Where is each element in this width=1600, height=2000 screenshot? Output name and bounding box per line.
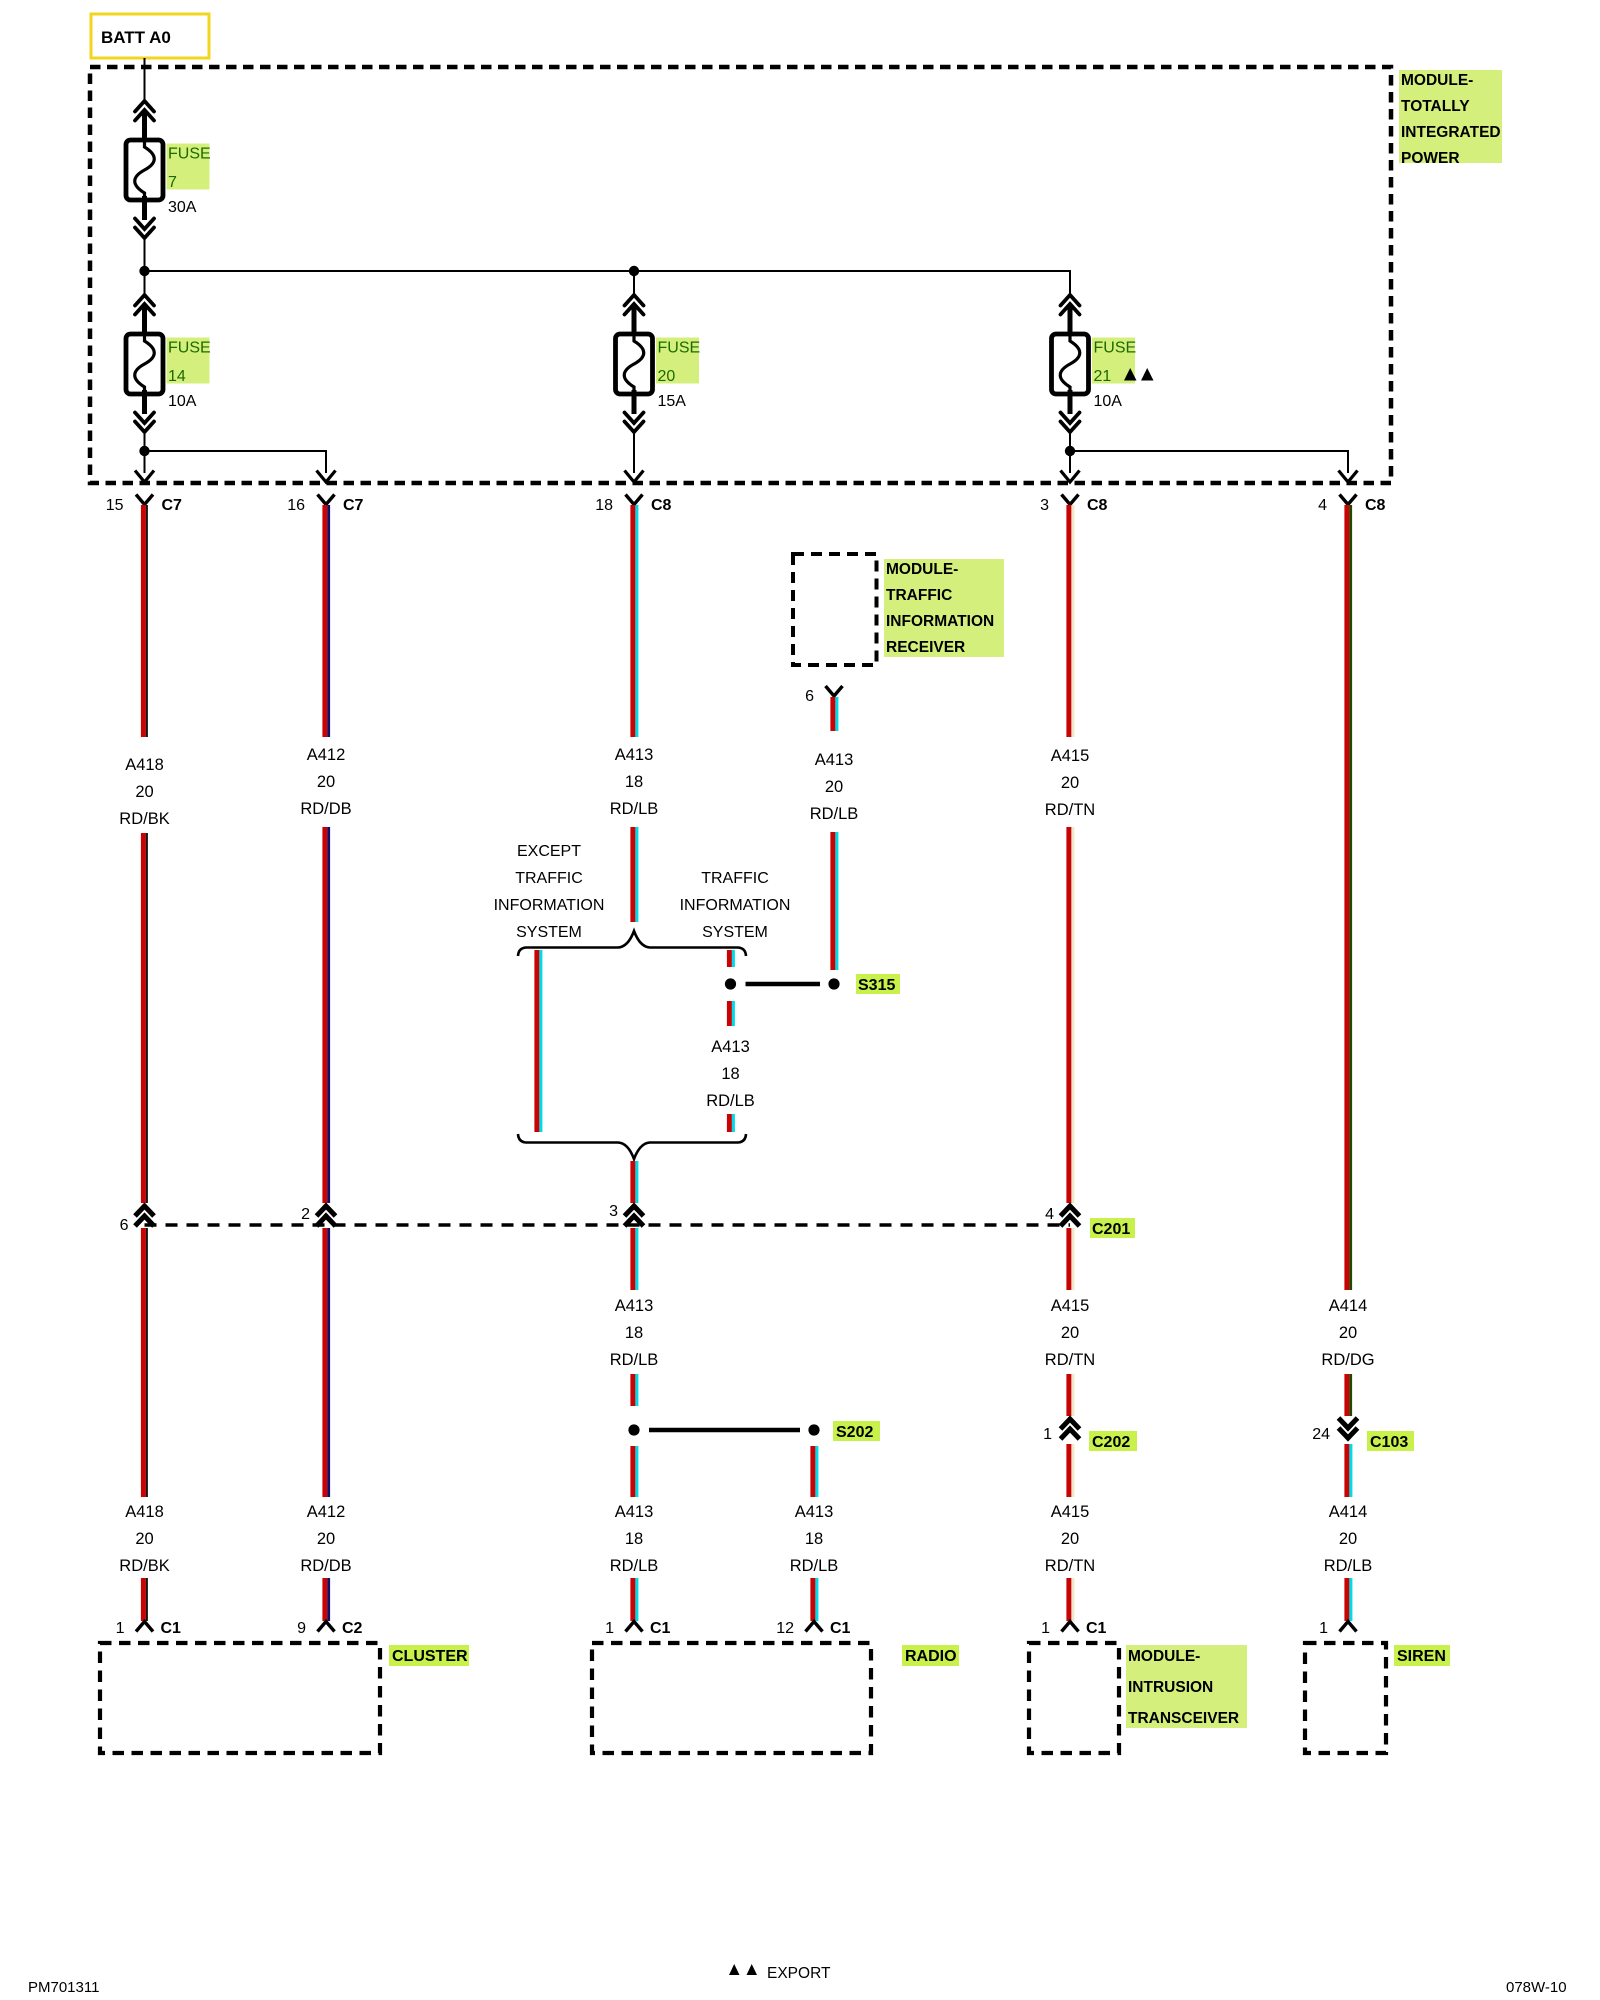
svg-text:FUSE: FUSE: [168, 146, 211, 163]
fuse F 21 - wire entry chevrons: [1061, 295, 1080, 315]
module RADIO dashed box: [592, 1643, 871, 1753]
wire A418 20 RD/BK segment: [141, 833, 148, 1203]
bottom connector pin 9 C2 terminal: [297, 1620, 362, 1637]
splice S202 name label: [833, 1421, 880, 1441]
svg-text:12: 12: [776, 1620, 794, 1637]
wire: fuse 21 to C8 pin 3: [1069, 451, 1071, 473]
fuse F 14 name label: [167, 338, 211, 386]
module INTRUSION TRANSCEIVER name label: [1126, 1645, 1247, 1728]
svg-text:20: 20: [1339, 1530, 1357, 1548]
svg-text:6: 6: [120, 1217, 129, 1234]
wire A413 label: [610, 746, 659, 818]
svg-text:RD/LB: RD/LB: [790, 1557, 839, 1575]
svg-text:TRAFFIC: TRAFFIC: [886, 587, 952, 604]
svg-text:A412: A412: [307, 1503, 346, 1521]
svg-text:S202: S202: [836, 1424, 873, 1441]
bottom connector pin 1 C1 terminal: [1041, 1620, 1106, 1637]
wire A413 RD/LB traffic branch lower: [727, 1114, 735, 1132]
svg-text:FUSE: FUSE: [1094, 340, 1137, 357]
wire A414 lower label: [1324, 1503, 1373, 1575]
svg-text:RD/TN: RD/TN: [1045, 801, 1095, 819]
svg-text:078W-10: 078W-10: [1506, 1979, 1567, 1996]
connector C103 name label: [1367, 1431, 1414, 1451]
svg-text:RD/LB: RD/LB: [1324, 1557, 1373, 1575]
wire A413 RD/LB traffic branch upper: [727, 950, 735, 967]
svg-text:20: 20: [1061, 1530, 1079, 1548]
svg-text:21: 21: [1094, 368, 1112, 385]
svg-text:RD/LB: RD/LB: [610, 1557, 659, 1575]
wire: fuse 7 output to bus node: [144, 238, 146, 271]
svg-text:20: 20: [317, 773, 335, 791]
svg-text:A413: A413: [815, 751, 854, 769]
svg-text:C2: C2: [342, 1620, 363, 1637]
wire A415 label: [1045, 747, 1095, 819]
wire A418 20 RD/BK segment (C7-15 down): [141, 505, 148, 737]
battery feed label box BATT A0: [91, 14, 209, 58]
wire: bus drop to fuse 20: [633, 271, 635, 296]
svg-text:C8: C8: [1087, 497, 1108, 514]
arrow into C7 pin 16: [317, 471, 336, 483]
svg-text:RD/LB: RD/LB: [610, 800, 659, 818]
connector C201 pin 6 terminal: [120, 1206, 154, 1234]
svg-text:20: 20: [317, 1530, 335, 1548]
svg-text:18: 18: [595, 497, 613, 514]
wire A415 20 RD/TN segment to intrusion module C1-1: [1066, 1578, 1074, 1621]
svg-text:20: 20: [1339, 1324, 1357, 1342]
arrow into C8 pin 18: [625, 471, 644, 483]
svg-text:A418: A418: [125, 1503, 164, 1521]
fuse F 14 - lead: [142, 307, 147, 338]
svg-text:RECEIVER: RECEIVER: [886, 639, 965, 656]
svg-text:RD/DB: RD/DB: [300, 800, 351, 818]
svg-text:RD/TN: RD/TN: [1045, 1351, 1095, 1369]
svg-text:1: 1: [605, 1620, 614, 1637]
svg-text:3: 3: [609, 1203, 618, 1220]
svg-text:INTEGRATED: INTEGRATED: [1401, 124, 1501, 141]
svg-text:15A: 15A: [658, 393, 687, 410]
svg-text:1: 1: [116, 1620, 125, 1637]
wire A414 20 RD/LB segment to siren: [1344, 1578, 1352, 1621]
connector C201 pin 3 terminal: [609, 1203, 643, 1226]
svg-text:INTRUSION: INTRUSION: [1128, 1679, 1213, 1696]
fuse F 20 - lead: [632, 390, 637, 414]
wire A412 label: [300, 746, 351, 818]
connector pin 6 terminal of traffic information receiver: [805, 686, 842, 705]
svg-text:24: 24: [1312, 1426, 1330, 1443]
wire A415 20 RD/TN segment (C8-3 down): [1066, 505, 1074, 737]
svg-text:C8: C8: [1365, 497, 1386, 514]
connector C8 pin 18 terminal: [595, 495, 671, 515]
svg-text:C1: C1: [161, 1620, 182, 1637]
node: fuse7 output junction: [139, 266, 149, 276]
fuse F 7 name label: [167, 144, 211, 192]
svg-text:POWER: POWER: [1401, 150, 1460, 167]
svg-text:10A: 10A: [1094, 393, 1123, 410]
wire A413 (pin12) label: [790, 1503, 839, 1575]
connector C7 pin 15 terminal: [106, 495, 182, 515]
fuse F 21 - body: [1052, 334, 1089, 394]
svg-text:BATT A0: BATT A0: [101, 28, 171, 47]
fuse F 7 - lead: [142, 196, 147, 220]
svg-text:C103: C103: [1370, 1434, 1408, 1451]
svg-text:S315: S315: [858, 977, 895, 994]
fuse F 20 name label: [656, 338, 700, 386]
svg-text:TRAFFIC: TRAFFIC: [515, 870, 583, 887]
node: bus tap to fuse 20: [629, 266, 639, 276]
wire A412 lower label: [300, 1503, 351, 1575]
svg-text:1: 1: [1043, 1426, 1052, 1443]
wire: fuse 21 output: [1069, 430, 1071, 451]
wire A413 18 RD/LB segment S202 to radio C1-12: [810, 1446, 818, 1497]
svg-text:EXPORT: EXPORT: [767, 1965, 831, 1982]
fuse F 7 - lead: [142, 113, 147, 144]
fuse F 14 - wire exit chevrons: [135, 413, 154, 433]
fuse F 14 - body: [126, 334, 163, 394]
wire A413 mid label: [610, 1297, 659, 1369]
connector C201 pin 4 terminal: [1045, 1206, 1079, 1226]
svg-text:10A: 10A: [168, 393, 197, 410]
wire A412 20 RD/DB segment to cluster C2-9: [322, 1578, 330, 1621]
svg-text:C202: C202: [1092, 1434, 1130, 1451]
svg-text:A413: A413: [615, 746, 654, 764]
svg-text:INFORMATION: INFORMATION: [886, 613, 994, 630]
svg-text:CLUSTER: CLUSTER: [392, 1648, 468, 1665]
wire A413 18 RD/LB segment (C201-3 down): [630, 1228, 638, 1290]
wire: branch to C7 pin 16: [145, 451, 327, 473]
module SIREN name label: [1394, 1645, 1450, 1666]
node: splice S202 right junction: [808, 1424, 819, 1435]
svg-text:A418: A418: [125, 756, 164, 774]
svg-text:RD/TN: RD/TN: [1045, 1557, 1095, 1575]
node: fuse 14 output junction: [139, 446, 149, 456]
wire A412 20 RD/DB segment: [322, 827, 330, 1203]
svg-text:A413: A413: [795, 1503, 834, 1521]
svg-text:18: 18: [721, 1065, 739, 1083]
wire A413 18 RD/LB segment to radio C1-1: [630, 1578, 638, 1621]
wire: fuse 14 to C7 pin 15: [144, 451, 146, 473]
module INTRUSION TRANSCEIVER dashed box: [1029, 1643, 1119, 1753]
module CLUSTER name label: [389, 1645, 469, 1666]
svg-text:MODULE-: MODULE-: [886, 561, 958, 578]
connector C201 name label: [1090, 1218, 1135, 1238]
svg-text:20: 20: [135, 1530, 153, 1548]
fuse F 21 - lead: [1068, 307, 1073, 338]
svg-text:RD/BK: RD/BK: [119, 810, 169, 828]
module CLUSTER dashed box: [100, 1643, 380, 1753]
svg-text:20: 20: [825, 778, 843, 796]
svg-text:7: 7: [168, 174, 177, 191]
wire A415 lower label: [1045, 1503, 1095, 1575]
svg-text:RD/LB: RD/LB: [706, 1092, 755, 1110]
svg-text:SYSTEM: SYSTEM: [516, 924, 582, 941]
wire A413 RD/LB traffic branch below splice: [727, 1001, 735, 1026]
connector C7 pin 16 terminal: [287, 495, 363, 515]
svg-text:16: 16: [287, 497, 305, 514]
svg-text:18: 18: [625, 1530, 643, 1548]
svg-text:MODULE-: MODULE-: [1128, 1648, 1200, 1665]
svg-text:A415: A415: [1051, 1503, 1090, 1521]
svg-text:A413: A413: [711, 1038, 750, 1056]
connector C201 dashed interface line: [145, 1223, 1071, 1226]
svg-text:14: 14: [168, 368, 186, 385]
svg-text:20: 20: [1061, 1324, 1079, 1342]
wire A412 20 RD/DB segment (C7-16 down): [322, 505, 330, 737]
splice S202 tie line: [649, 1428, 800, 1433]
fuse F 7 - body: [126, 140, 163, 200]
svg-text:MODULE-: MODULE-: [1401, 72, 1473, 89]
fuse F 20 - body: [616, 334, 653, 394]
bottom connector pin 12 C1 terminal: [776, 1620, 850, 1637]
svg-text:30A: 30A: [168, 199, 197, 216]
module U2 Traffic Information Receiver - dashed box: [793, 554, 877, 665]
svg-text:TRAFFIC: TRAFFIC: [701, 870, 769, 887]
merge brace (branches rejoin): [518, 1134, 746, 1159]
wire A415 20 RD/TN segment (C201-4 down): [1066, 1228, 1074, 1290]
node: fuse 21 output junction: [1065, 446, 1075, 456]
wire A413 20 RD/LB stub from receiver: [830, 697, 838, 731]
svg-text:C8: C8: [651, 497, 672, 514]
module U1 Totally Integrated Power - dashed enclosure: [90, 67, 1391, 483]
wire A413 18 RD/LB segment to C201: [630, 1161, 638, 1203]
connector C202 name label: [1089, 1431, 1137, 1451]
svg-text:3: 3: [1040, 497, 1049, 514]
wire A413 18 RD/LB segment to split brace: [630, 827, 638, 922]
wire A413 18 RD/LB segment to splice S202: [630, 1374, 638, 1406]
traffic-information-system caption: [680, 870, 791, 941]
svg-text:A415: A415: [1051, 747, 1090, 765]
svg-text:RADIO: RADIO: [905, 1648, 957, 1665]
fuse F 20 - lead: [632, 307, 637, 338]
connector C201 pin 2 terminal: [301, 1206, 335, 1226]
wire A413 18 RD/LB segment to radio C1-12: [810, 1578, 818, 1621]
node: splice S202 left junction: [628, 1424, 639, 1435]
svg-text:TOTALLY: TOTALLY: [1401, 98, 1470, 115]
svg-text:RD/DG: RD/DG: [1321, 1351, 1374, 1369]
arrow into C7 pin 15: [135, 471, 154, 483]
svg-text:20: 20: [658, 368, 676, 385]
svg-text:A412: A412: [307, 746, 346, 764]
svg-text:4: 4: [1318, 497, 1327, 514]
svg-text:9: 9: [297, 1620, 306, 1637]
fuse F 14 - lead: [142, 390, 147, 414]
wire A418 label: [119, 756, 169, 828]
splice S315 name label: [856, 974, 900, 994]
svg-text:INFORMATION: INFORMATION: [680, 897, 791, 914]
svg-text:1: 1: [1319, 1620, 1328, 1637]
svg-text:INFORMATION: INFORMATION: [494, 897, 605, 914]
svg-text:A415: A415: [1051, 1297, 1090, 1315]
node: splice S315 right junction: [828, 978, 839, 989]
svg-text:FUSE: FUSE: [168, 340, 211, 357]
splice S315 tie line: [746, 982, 821, 987]
svg-text:C1: C1: [650, 1620, 671, 1637]
svg-text:A413: A413: [615, 1503, 654, 1521]
svg-text:EXCEPT: EXCEPT: [517, 843, 581, 860]
svg-text:C1: C1: [1086, 1620, 1107, 1637]
svg-text:RD/DB: RD/DB: [300, 1557, 351, 1575]
arrow into C8 pin 3: [1061, 471, 1080, 483]
except-traffic-information-system caption: [494, 843, 605, 941]
svg-text:TRANSCEIVER: TRANSCEIVER: [1128, 1710, 1239, 1727]
svg-text:C7: C7: [343, 497, 364, 514]
svg-text:C201: C201: [1092, 1221, 1130, 1238]
wire A418 20 RD/BK segment (C201-6 down to cluster): [141, 1228, 148, 1497]
svg-text:C1: C1: [830, 1620, 851, 1637]
svg-text:20: 20: [135, 783, 153, 801]
svg-text:20: 20: [1061, 774, 1079, 792]
wire A413 (receiver) label: [810, 751, 859, 823]
bottom connector pin 1 C1 terminal: [116, 1620, 181, 1637]
svg-text:RD/LB: RD/LB: [810, 805, 859, 823]
svg-text:FUSE: FUSE: [658, 340, 701, 357]
connector C202 pin 1 terminal: [1043, 1419, 1079, 1443]
svg-text:6: 6: [805, 688, 814, 705]
svg-text:15: 15: [106, 497, 124, 514]
svg-text:SIREN: SIREN: [1397, 1648, 1446, 1665]
module U1 name label MODULE-TOTALLY INTEGRATED POWER: [1399, 70, 1502, 167]
svg-text:18: 18: [805, 1530, 823, 1548]
wire A415 20 RD/TN segment: [1066, 827, 1074, 1203]
wire A415 20 RD/TN segment to C202: [1066, 1374, 1074, 1416]
wire A415 mid label: [1045, 1297, 1095, 1369]
wire A418 20 RD/BK segment to cluster C1-1: [141, 1578, 148, 1621]
wire A413 radio label: [610, 1503, 659, 1575]
svg-text:A414: A414: [1329, 1503, 1368, 1521]
fuse F 21 - wire exit chevrons: [1061, 413, 1080, 433]
wire A413 RD/LB except-traffic branch: [534, 950, 542, 1132]
fuse F 20 - wire entry chevrons: [625, 295, 644, 315]
module SIREN dashed box: [1305, 1643, 1386, 1753]
wire: branch to C8 pin 4: [1070, 451, 1348, 473]
svg-text:A413: A413: [615, 1297, 654, 1315]
wire: internal bus to fuse 14 / fuse 20 / fuse 21: [145, 271, 1071, 296]
wire A414 mid label: [1321, 1297, 1374, 1369]
connector C103 pin 24 terminal: [1312, 1418, 1357, 1443]
fuse F 20 - wire exit chevrons: [625, 413, 644, 433]
wire: fuse 14 output: [144, 430, 146, 451]
wire A413 20 RD/LB segment to splice S315: [830, 832, 838, 970]
bottom connector pin 1 C1 terminal: [605, 1620, 670, 1637]
bottom connector pin 1 terminal: [1319, 1620, 1356, 1637]
svg-text:2: 2: [301, 1206, 310, 1223]
wire A414 20 RD/DG segment (C8-4 down): [1344, 505, 1352, 1290]
arrow into C8 pin 4: [1339, 471, 1358, 483]
svg-text:SYSTEM: SYSTEM: [702, 924, 768, 941]
connector C8 pin 4 terminal: [1318, 495, 1385, 515]
wire A413 18 RD/LB segment (C8-18 down): [630, 505, 638, 737]
wire A413 18 RD/LB segment below S202 (radio C1-1): [630, 1446, 638, 1497]
fuse F 7 - wire exit chevrons: [135, 219, 154, 239]
wire A414 20 RD/DG segment to C103: [1344, 1374, 1352, 1416]
svg-text:PM701311: PM701311: [28, 1979, 99, 1996]
wire A413 traffic branch label: [706, 1038, 755, 1110]
svg-text:RD/BK: RD/BK: [119, 1557, 169, 1575]
wire: BATT A0 feed into TIPM: [144, 58, 146, 103]
fuse F 7 - wire entry chevrons: [135, 101, 154, 121]
svg-text:A414: A414: [1329, 1297, 1368, 1315]
svg-text:18: 18: [625, 773, 643, 791]
svg-text:4: 4: [1045, 1206, 1054, 1223]
footer export note: [729, 1964, 831, 1982]
fuse F 21 name label: [1092, 338, 1136, 386]
connector C8 pin 3 terminal: [1040, 495, 1107, 515]
module RADIO name label: [902, 1645, 959, 1666]
wire A412 20 RD/DB segment (C201-2 down to cluster): [322, 1228, 330, 1497]
wire A414 20 RD/LB segment below C103: [1344, 1444, 1352, 1497]
svg-text:18: 18: [625, 1324, 643, 1342]
node: splice S315 left junction: [725, 978, 736, 989]
wire: fuse 20 to C8 pin 18: [633, 430, 635, 473]
wire: bus drop to fuse 14: [144, 271, 146, 296]
fuse F 14 - wire entry chevrons: [135, 295, 154, 315]
split brace (wire A413 divides into variants): [518, 931, 746, 956]
wire A418 lower label: [119, 1503, 169, 1575]
svg-text:C7: C7: [162, 497, 183, 514]
fuse 21 export triangles: [1124, 368, 1154, 381]
svg-text:1: 1: [1041, 1620, 1050, 1637]
module U2 name label MODULE-TRAFFIC INFORMATION RECEIVER: [884, 559, 1004, 657]
svg-text:RD/LB: RD/LB: [610, 1351, 659, 1369]
wire A415 20 RD/TN segment below C202: [1066, 1444, 1074, 1497]
fuse F 21 - lead: [1068, 390, 1073, 414]
